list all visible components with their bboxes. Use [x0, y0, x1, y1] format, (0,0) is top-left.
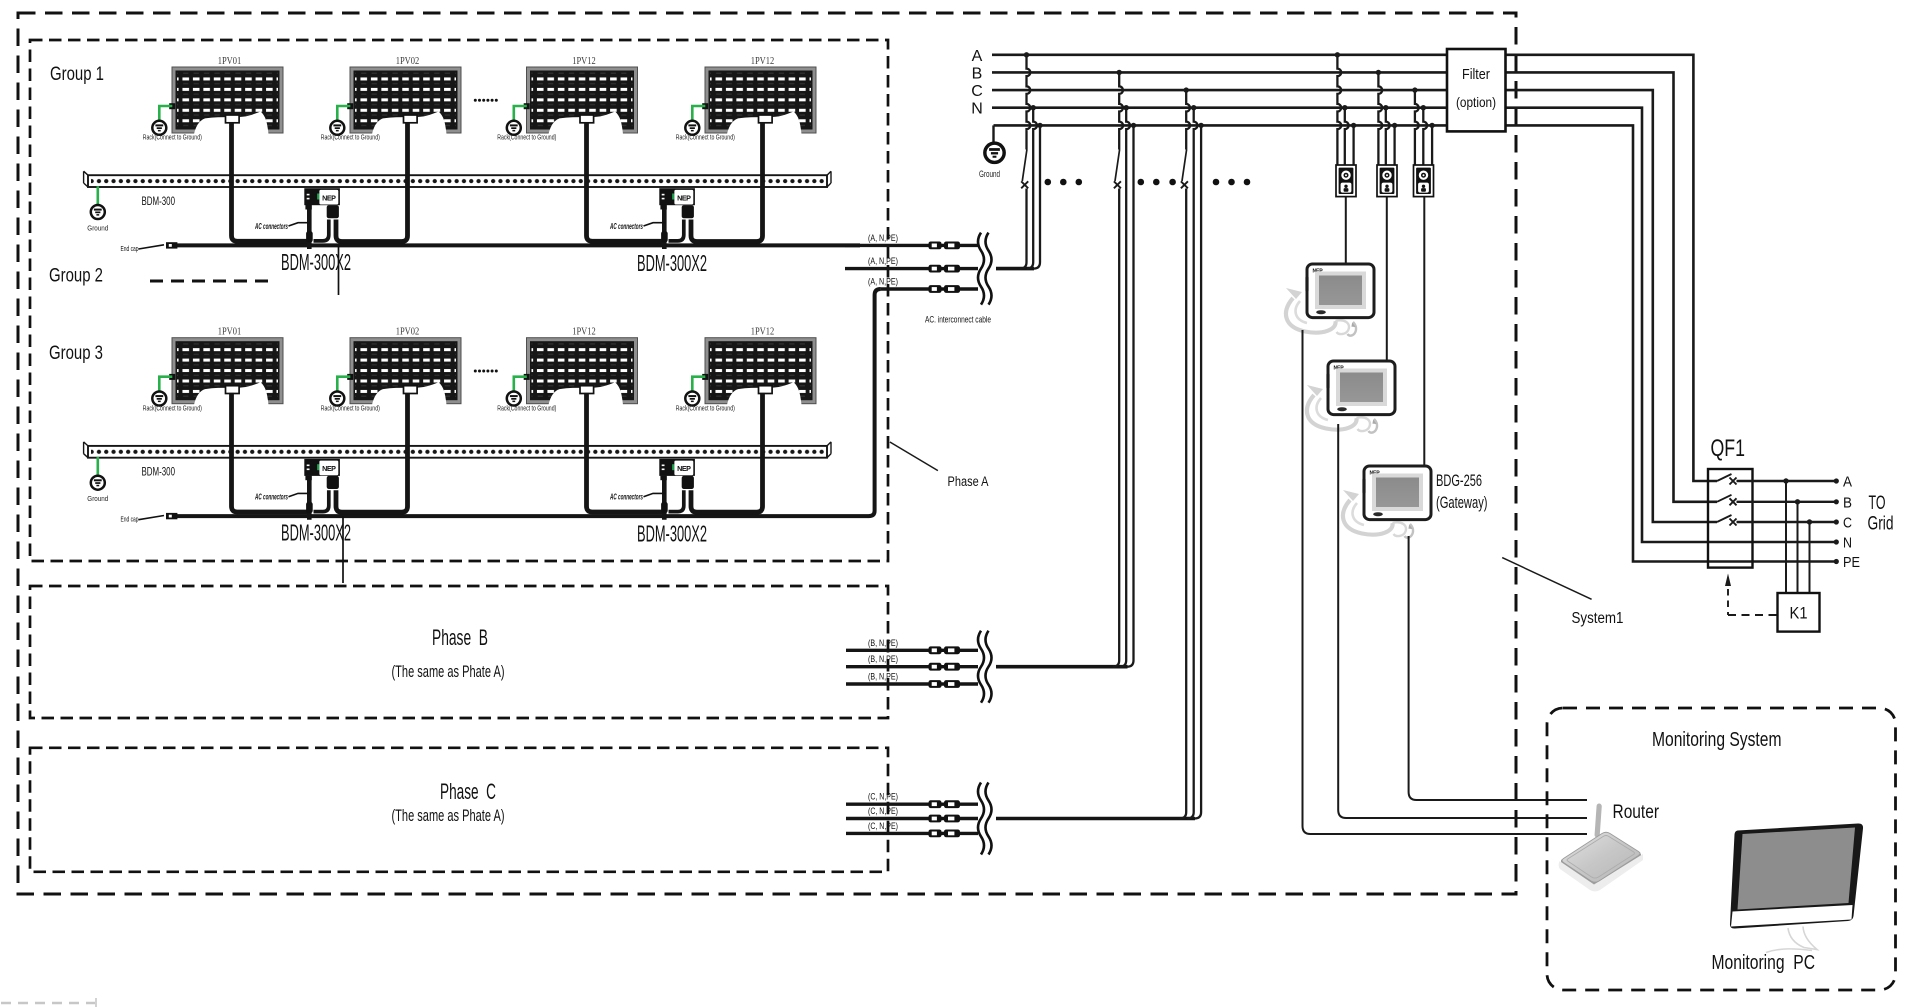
solar panel 1PV12 (Group 3)	[702, 327, 816, 405]
svg-text:B: B	[1843, 495, 1852, 511]
svg-text:BDG-256: BDG-256	[1436, 472, 1482, 490]
label Group 1	[50, 64, 104, 85]
AC trunk connector pair (Phase C string 3)	[929, 830, 961, 838]
AC trunk connector pair (Phase B string 3)	[929, 680, 961, 688]
trunk cable (Phase A string 3)	[881, 287, 978, 290]
dashed box Monitoring System	[1547, 708, 1896, 990]
trunk cable (Phase B string 3)	[846, 682, 978, 685]
svg-text:(A, N,PE): (A, N,PE)	[868, 256, 898, 266]
label (The same as Phate A) C	[392, 807, 505, 825]
svg-text:B: B	[972, 65, 983, 82]
label (The same as Phate A) B	[392, 663, 505, 681]
label Monitoring PC	[1712, 951, 1816, 974]
svg-text:Group 2: Group 2	[49, 266, 103, 287]
label BDM-300X2 #1 (Group 1)	[281, 249, 351, 275]
filter box (option)	[1447, 49, 1506, 131]
router body	[1559, 832, 1643, 891]
riser wire (Phase A -> bus)	[1034, 123, 1043, 269]
svg-text:AC. interconnect cable: AC. interconnect cable	[925, 315, 991, 326]
label B, N,PE	[868, 672, 898, 682]
trunk cable (Phase C string 2)	[846, 817, 978, 820]
merged AC cable after break (Phase B)	[996, 665, 1128, 669]
svg-text:(A, N,PE): (A, N,PE)	[868, 233, 898, 243]
svg-text:(Gateway): (Gateway)	[1436, 494, 1488, 512]
label A, N,PE	[868, 233, 898, 243]
dashed box: Group 1-3 (Phase A)	[30, 40, 888, 561]
svg-text:End cap: End cap	[121, 244, 139, 253]
AC trunk connector pair (Phase B string 2)	[929, 663, 961, 671]
microinverter NEP BDM-300X2 unit 2 (Group 3) with AC connectors and panel wiring	[587, 393, 763, 520]
ground symbol: rack ground (Group 3 panel 4)	[676, 377, 735, 413]
cable break symbol (Phase A)	[978, 233, 992, 305]
riser wire (Phase B -> bus)	[1113, 70, 1123, 667]
output terminal B	[1834, 495, 1852, 511]
wires: meter 2 (phase B) taps	[1376, 70, 1398, 165]
ellipsis dots between phase switch groups	[1045, 179, 1251, 186]
bus line N	[992, 108, 1835, 542]
riser wire (Phase B -> bus)	[1120, 105, 1130, 667]
label BDM-300 (Group 1)	[142, 196, 176, 208]
output terminal A	[1834, 475, 1853, 491]
breaker switch pole A	[1717, 474, 1835, 485]
label C, N,PE	[868, 792, 898, 802]
trunk cable (Phase A string 2)	[845, 267, 978, 270]
svg-text:Ground: Ground	[979, 169, 1000, 180]
trunk cable (Phase C string 1)	[846, 803, 978, 806]
svg-text:(The same as Phate A): (The same as Phate A)	[392, 663, 505, 681]
svg-text:BDM-300X2: BDM-300X2	[281, 249, 351, 275]
meter 3 (phase C)	[1414, 165, 1434, 197]
NEP monitor 1	[1305, 264, 1374, 318]
svg-text:1PV01: 1PV01	[218, 56, 242, 67]
label Monitoring System	[1652, 728, 1782, 751]
solar panel 1PV12 (Group 1)	[524, 56, 638, 134]
dashed box: Phase B	[30, 586, 888, 718]
AC trunk connector pair (Phase A string 2)	[929, 265, 961, 273]
svg-text:End cap: End cap	[121, 515, 139, 524]
svg-text:1PV02: 1PV02	[396, 327, 420, 338]
label Phase C	[440, 779, 496, 804]
bus label A	[972, 48, 983, 65]
router antenna	[1594, 803, 1602, 837]
output terminal PE	[1834, 555, 1861, 571]
merged AC cable after break (Phase A)	[996, 267, 1034, 271]
dashed box: Phase C	[30, 748, 888, 872]
NEP monitor 2 shadow	[1307, 385, 1370, 431]
svg-text:PE: PE	[1843, 555, 1860, 571]
label BDM-300X2 #1 (Group 3)	[281, 520, 351, 546]
label C, N,PE	[868, 821, 898, 831]
svg-text:Ground: Ground	[87, 494, 108, 503]
svg-text:(C, N,PE): (C, N,PE)	[868, 806, 898, 816]
breaker switch pole B	[1717, 495, 1835, 506]
svg-text:BDM-300X2: BDM-300X2	[281, 520, 351, 546]
solar panel 1PV12 (Group 3)	[524, 327, 638, 405]
riser wire (Phase C -> bus)	[1187, 105, 1197, 819]
wire stub: trunk continuation to Group 2	[338, 245, 340, 295]
label Phase B	[432, 625, 488, 650]
end cap (Group 1)	[121, 242, 178, 253]
ellipsis dots between panels (Group 3)	[474, 370, 498, 373]
svg-text:A: A	[1843, 475, 1852, 491]
svg-text:1PV01: 1PV01	[218, 327, 242, 338]
label B, N,PE	[868, 654, 898, 664]
svg-text:Group 3: Group 3	[49, 343, 103, 364]
svg-text:Group 1: Group 1	[50, 64, 104, 85]
cable break symbol (Phase C)	[978, 783, 992, 855]
output terminal C	[1834, 516, 1852, 532]
cursor icon under NEP monitor 2	[1369, 419, 1378, 433]
bus line B	[992, 72, 1717, 501]
gateway shadow	[1343, 490, 1406, 536]
label TO Grid	[1868, 493, 1894, 535]
svg-text:N: N	[1843, 536, 1852, 552]
AC trunk connector pair (Phase C string 2)	[929, 815, 961, 823]
ground symbol: rack ground (Group 1 panel 4)	[676, 106, 735, 142]
monitoring PC	[1730, 823, 1863, 952]
ellipsis dots between panels (Group 1)	[474, 99, 498, 102]
cursor icon under gateway	[1405, 524, 1414, 538]
faint dashed remnant bottom-left	[1, 998, 96, 1007]
wire stub: trunk continuation below Group 3	[342, 516, 344, 583]
end cap (Group 3)	[121, 513, 178, 524]
svg-text:Monitoring System: Monitoring System	[1652, 728, 1782, 751]
svg-text:QF1: QF1	[1711, 435, 1746, 462]
label A, N,PE	[868, 256, 898, 266]
dashed separator under Group 2	[150, 280, 273, 283]
bus label N	[971, 101, 983, 118]
svg-text:(B, N,PE): (B, N,PE)	[868, 654, 898, 664]
wire: Group 3 trunk riser to third A string	[860, 289, 881, 516]
output terminal N	[1834, 536, 1852, 552]
svg-text:(A, N,PE): (A, N,PE)	[868, 277, 898, 287]
svg-text:Router: Router	[1613, 801, 1660, 823]
svg-text:Ground: Ground	[87, 224, 108, 233]
ground symbol at PE bus	[979, 125, 1004, 180]
svg-text:Phase A: Phase A	[948, 474, 989, 489]
svg-text:C: C	[1843, 516, 1852, 532]
label AC interconnect cable	[925, 315, 991, 326]
bus line C	[992, 90, 1717, 522]
trunk cable BDM-300X2 (Group 3)	[168, 514, 861, 518]
label BDM-300 (Group 3)	[142, 467, 176, 479]
label Group 3	[49, 343, 103, 364]
NEP monitor 2	[1326, 361, 1395, 415]
solar panel 1PV02 (Group 1)	[347, 56, 461, 134]
bus label B	[972, 65, 983, 82]
riser wire (Phase A -> bus)	[1020, 52, 1030, 269]
label QF1	[1711, 435, 1746, 462]
solar panel 1PV12 (Group 1)	[702, 56, 816, 134]
trunk cable (Phase B string 2)	[846, 665, 978, 668]
riser wire (Phase A -> bus)	[1027, 105, 1037, 269]
label Router	[1613, 801, 1660, 823]
solar panel 1PV01 (Group 1)	[169, 56, 283, 134]
cursor icon under NEP monitor 1	[1348, 322, 1357, 336]
svg-text:(B, N,PE): (B, N,PE)	[868, 672, 898, 682]
ground symbol: rack ground (Group 3 panel 3)	[497, 377, 556, 413]
microinverter NEP BDM-300X2 unit 1 (Group 3) with AC connectors and panel wiring	[232, 393, 408, 520]
dashed control link K1 to QF1 with arrow	[1725, 574, 1778, 616]
ground symbol: rail ground (Group 1)	[87, 186, 108, 232]
meter 1 (phase A)	[1336, 165, 1356, 197]
ground symbol: rail ground (Group 3)	[87, 457, 108, 503]
wire: meter to NEP monitor 2	[1386, 197, 1388, 363]
label (Gateway)	[1436, 494, 1488, 512]
svg-text:System1: System1	[1572, 610, 1624, 627]
svg-text:BDM-300: BDM-300	[142, 196, 176, 208]
svg-text:A: A	[972, 48, 983, 65]
AC trunk connector pair (Phase A string 3)	[929, 285, 961, 293]
breaker switch pole C	[1717, 515, 1835, 526]
svg-text:Monitoring PC: Monitoring PC	[1712, 951, 1816, 974]
wire: meter to NEP monitor 1	[1345, 197, 1347, 266]
svg-text:Phase C: Phase C	[440, 779, 496, 804]
AC trunk connector pair (Phase B string 1)	[929, 646, 961, 654]
label B, N,PE	[868, 638, 898, 648]
trunk cable (Phase C string 3)	[846, 832, 978, 835]
svg-text:K1: K1	[1790, 605, 1808, 623]
solar panel 1PV02 (Group 3)	[347, 327, 461, 405]
trunk cable BDM-300X2 (Group 1)	[168, 243, 861, 247]
contactor K1	[1778, 593, 1820, 632]
svg-text:1PV12: 1PV12	[572, 327, 596, 338]
callout Phase A	[890, 442, 989, 489]
AC trunk connector pair (Phase A string 1)	[929, 242, 961, 250]
mounting rail BDM-300 (Group 1)	[84, 171, 831, 187]
wire: meter 3 to gateway	[1423, 197, 1425, 468]
label BDM-300X2 #2 (Group 3)	[637, 521, 707, 547]
gateway BDG-256	[1362, 466, 1431, 520]
AC trunk connector pair (Phase C string 1)	[929, 800, 961, 808]
label BDM-300X2 #2 (Group 1)	[637, 250, 707, 276]
merged AC cable after break (Phase C)	[996, 817, 1195, 821]
microinverter NEP BDM-300X2 unit 1 (Group 1) with AC connectors and panel wiring	[232, 122, 408, 249]
wires: meter 1 (phase A) taps	[1335, 52, 1357, 165]
svg-text:Phase B: Phase B	[432, 625, 488, 650]
svg-text:BDM-300X2: BDM-300X2	[637, 521, 707, 547]
callout System1	[1502, 558, 1623, 627]
svg-text:(option): (option)	[1456, 94, 1496, 110]
outer dashed system border	[18, 13, 1516, 894]
svg-text:(The same as Phate A): (The same as Phate A)	[392, 807, 505, 825]
ground symbol: rack ground (Group 3 panel 2)	[321, 377, 380, 413]
svg-text:1PV12: 1PV12	[751, 327, 775, 338]
microinverter NEP BDM-300X2 unit 2 (Group 1) with AC connectors and panel wiring	[587, 122, 763, 249]
NEP monitor 1 shadow	[1286, 288, 1349, 334]
wire: gateway to router	[1409, 536, 1587, 800]
svg-text:N: N	[971, 101, 983, 118]
bus line A	[992, 55, 1717, 481]
riser wire (Phase C -> bus)	[1180, 87, 1190, 818]
svg-text:C: C	[971, 83, 983, 100]
svg-text:TO: TO	[1869, 493, 1886, 514]
svg-text:Filter: Filter	[1462, 66, 1490, 83]
riser wire (Phase C -> bus)	[1195, 123, 1204, 819]
svg-text:1PV12: 1PV12	[751, 56, 775, 67]
ground symbol: rack ground (Group 3 panel 1)	[143, 377, 202, 413]
svg-text:BDM-300: BDM-300	[142, 467, 176, 479]
meter 2 (phase B)	[1377, 165, 1397, 197]
ground symbol: rack ground (Group 1 panel 2)	[321, 106, 380, 142]
mounting rail BDM-300 (Group 3)	[84, 442, 831, 458]
bus label C	[971, 83, 983, 100]
svg-text:1PV12: 1PV12	[572, 56, 596, 67]
wire: monitor 2 to router	[1338, 424, 1587, 818]
svg-text:1PV02: 1PV02	[396, 56, 420, 67]
label BDG-256	[1436, 472, 1482, 490]
ground symbol: rack ground (Group 1 panel 3)	[497, 106, 556, 142]
breaker QF1 box	[1708, 469, 1753, 568]
riser wire (Phase B -> bus)	[1127, 123, 1136, 667]
trunk cable (Phase B string 1)	[846, 649, 978, 652]
label Group 2	[49, 266, 103, 287]
ground symbol: rack ground (Group 1 panel 1)	[143, 106, 202, 142]
svg-text:Grid: Grid	[1868, 514, 1894, 535]
trunk cable (Phase A string 1)	[845, 244, 978, 247]
label A, N,PE	[868, 277, 898, 287]
wires: meter 3 (phase C) taps	[1412, 87, 1435, 165]
cable break symbol (Phase B)	[978, 631, 992, 703]
svg-text:(C, N,PE): (C, N,PE)	[868, 792, 898, 802]
wire: monitor 1 to router	[1303, 330, 1588, 834]
label C, N,PE	[868, 806, 898, 816]
solar panel 1PV01 (Group 3)	[169, 327, 283, 405]
svg-text:(B, N,PE): (B, N,PE)	[868, 638, 898, 648]
bus line PE	[994, 125, 1836, 561]
wires: A/B/C to contactor K1	[1783, 478, 1812, 593]
svg-text:BDM-300X2: BDM-300X2	[637, 250, 707, 276]
svg-text:(C, N,PE): (C, N,PE)	[868, 821, 898, 831]
